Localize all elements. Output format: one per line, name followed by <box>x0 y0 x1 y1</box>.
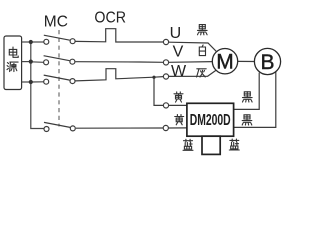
MC mechanical linkage dashed line <box>58 30 60 127</box>
wire: L4 from contact to terminal and DM200D input 2 <box>76 127 163 129</box>
terminal V <box>163 60 168 65</box>
label 黑 on DM output 1 <box>243 92 253 102</box>
node: junction dot L2 <box>29 60 33 64</box>
label 蓝 right of tab <box>229 139 239 150</box>
wire: L3 with OCR heater bump <box>75 69 163 81</box>
label 灰 on W wire <box>197 69 207 77</box>
wire: DM200D output 1 to brake B <box>234 73 260 110</box>
wire: stub L3 box to bus <box>22 81 31 83</box>
svg-text:W: W <box>171 63 187 80</box>
contactor MC pole 1 <box>44 35 75 44</box>
label 黄 on DM input 1 <box>174 92 183 102</box>
svg-text:MC: MC <box>44 14 68 31</box>
wire: L2 bus to contact <box>31 61 44 64</box>
power source box 电源 <box>4 36 22 90</box>
contactor MC pole 4 <box>44 122 75 131</box>
terminal U <box>163 39 168 44</box>
controller DM200D <box>187 103 234 136</box>
wire: terminal into DM200D input 1 <box>169 104 187 106</box>
wire: L1 terminal to motor M <box>169 42 216 51</box>
motor M <box>212 49 237 74</box>
wire: stub L1 box to bus <box>22 41 31 43</box>
node: junction dot L3 <box>29 80 33 84</box>
wire: motor M to brake B <box>238 60 255 62</box>
terminal yellow 1 <box>163 103 168 108</box>
wire: DM200D output 2 to brake B <box>234 72 276 128</box>
wire: left vertical bus <box>31 42 44 129</box>
label 白 on V wire <box>199 45 205 56</box>
label 电 in power box <box>9 47 18 57</box>
svg-text:B: B <box>260 51 274 74</box>
terminal W <box>163 74 168 79</box>
wire: L3 bus to contact <box>31 81 44 83</box>
wire: branch from L3 junction down to DM200D input 1 <box>154 77 163 105</box>
label 黄 on DM input 2 <box>175 115 184 125</box>
label 黑 on U wire <box>198 25 208 35</box>
terminal yellow 2 <box>163 125 168 130</box>
wire: L2 terminal to motor M <box>169 61 213 64</box>
wire: stub L2 box to bus <box>22 61 31 63</box>
wire: L1 with OCR heater bump to terminal U <box>75 29 163 42</box>
contactor MC pole 2 <box>44 56 75 65</box>
contactor MC pole 3 <box>44 75 75 84</box>
svg-text:U: U <box>170 25 182 42</box>
wire: L3 terminal to motor M <box>169 70 217 76</box>
brake B <box>254 48 280 74</box>
node: junction on W line <box>152 76 155 79</box>
connector tab below DM200D <box>202 136 220 154</box>
label 蓝 left of tab <box>183 139 193 150</box>
svg-text:DM200D: DM200D <box>190 112 231 129</box>
node: junction dot L1 <box>29 40 33 44</box>
wire: L2 to terminal V <box>75 61 163 64</box>
label 源 in power box <box>7 62 18 72</box>
wire: terminal into DM200D input 2 <box>169 127 187 129</box>
wire: L1 bus to contact <box>31 41 44 43</box>
svg-text:OCR: OCR <box>94 9 126 26</box>
svg-text:M: M <box>216 51 234 74</box>
label 黑 on DM output 2 <box>242 115 252 125</box>
svg-text:V: V <box>173 44 184 61</box>
